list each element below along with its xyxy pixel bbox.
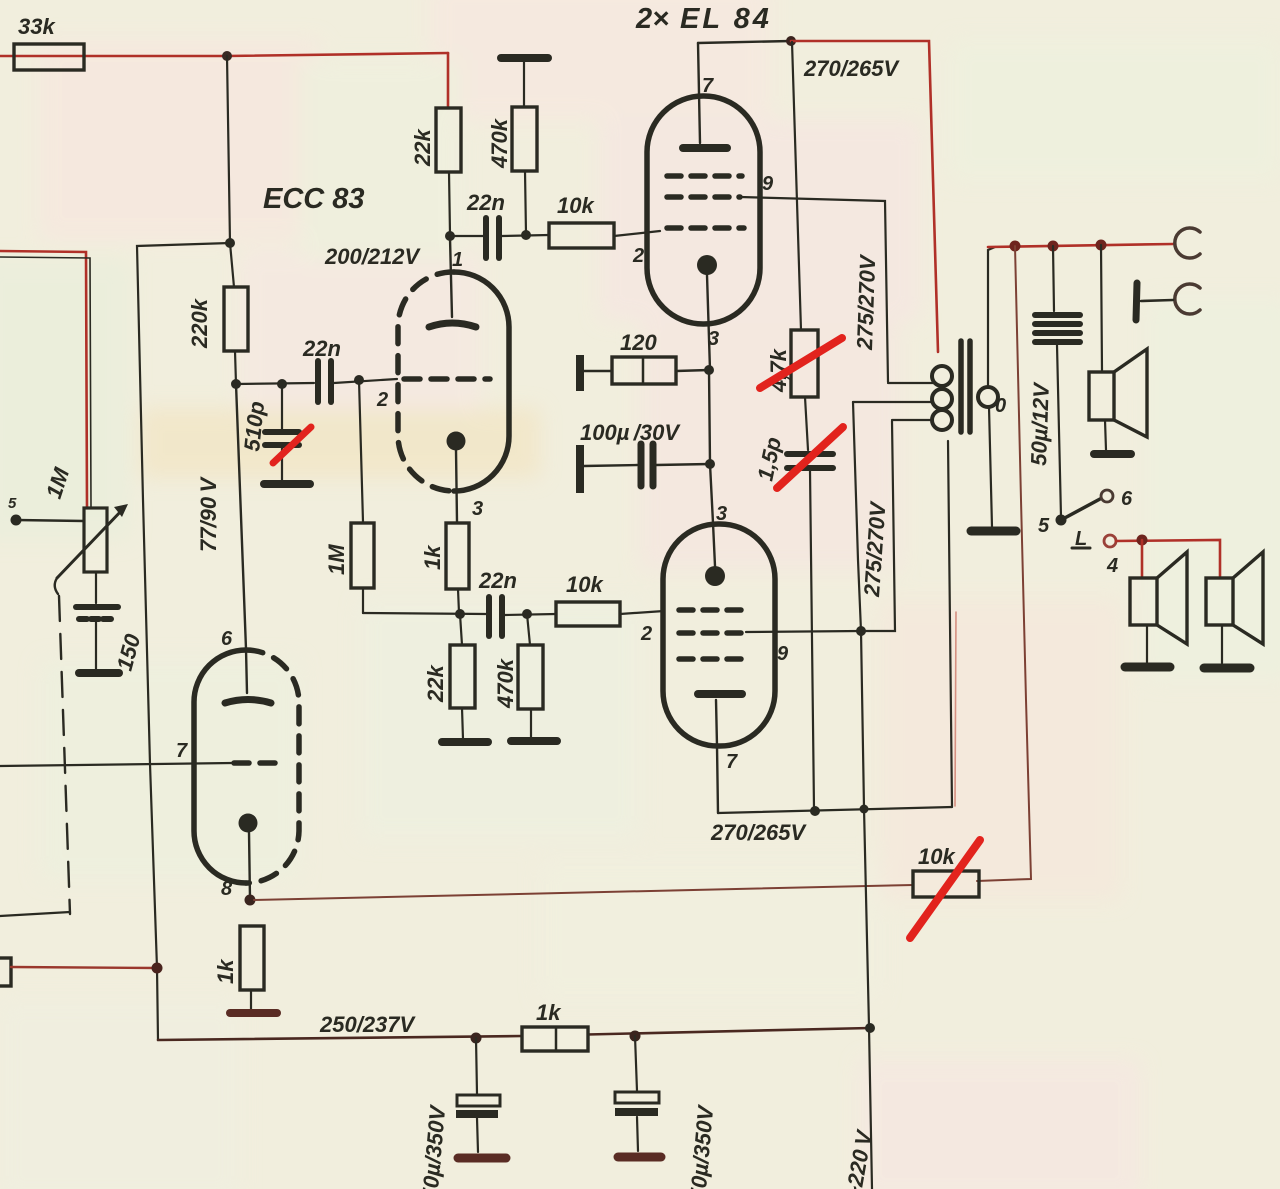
resistor 470k (upper) xyxy=(512,107,537,171)
wire junction to 22n xyxy=(450,235,483,237)
plate bar V1b xyxy=(225,700,271,704)
terminal bar 100u left xyxy=(576,445,584,493)
svg-text:1k: 1k xyxy=(213,958,238,984)
correction slash over 1,5p xyxy=(777,427,843,488)
wire plate lead V1b from 220k node xyxy=(236,384,247,693)
svg-text:8: 8 xyxy=(221,878,233,900)
cathode dot V2a xyxy=(697,255,717,275)
svg-text:270/265V: 270/265V xyxy=(803,56,901,81)
wire plate lead V2b down xyxy=(716,700,718,813)
wire cathode lead V1a xyxy=(456,450,457,522)
ground below secondary xyxy=(971,527,1016,536)
node rail junction right xyxy=(865,1023,875,1033)
ground below 470k xyxy=(511,737,557,745)
node red speaker junction xyxy=(1137,535,1148,546)
svg-text:275/270V: 275/270V xyxy=(852,253,880,351)
ground below 150 xyxy=(79,669,119,677)
svg-text:2×: 2× xyxy=(635,3,669,35)
triode V1b ECC83 envelope solid left xyxy=(194,650,246,883)
svg-text:7: 7 xyxy=(176,740,188,762)
resistor 33k xyxy=(14,44,84,70)
node red rail dot 1 xyxy=(1010,241,1021,252)
potentiometer 1M body xyxy=(84,508,107,572)
svg-text:270/265V: 270/265V xyxy=(710,820,808,845)
ground below C2 dark red xyxy=(618,1153,661,1162)
wire 220k bottom lead xyxy=(235,351,236,384)
grid g2 dashes V2a xyxy=(667,194,740,200)
svg-text:120: 120 xyxy=(620,330,657,355)
node cathode junction 120 xyxy=(704,365,714,375)
plate bar V1a xyxy=(429,323,476,327)
wire 100u to cathode node xyxy=(656,464,710,465)
cathode dot V1b xyxy=(239,814,258,833)
wire 10k to grid V2a xyxy=(614,231,660,236)
node cathode V1b junction xyxy=(245,895,256,906)
wire 50u to switch xyxy=(1057,345,1061,517)
switch lever xyxy=(1061,499,1100,520)
wire speaker1 to ground xyxy=(1105,420,1106,450)
ground below speaker2 xyxy=(1125,663,1170,672)
wire cathode node horizontal xyxy=(363,613,486,614)
wire red output rail xyxy=(988,244,1173,247)
wire cathode lead V2a down xyxy=(707,275,710,370)
wire from junction down to node A xyxy=(227,56,230,243)
svg-text:22n: 22n xyxy=(478,568,517,593)
wire red input to volume pot xyxy=(0,251,87,508)
svg-text:2: 2 xyxy=(376,389,388,411)
wire 1.5p down to plate wire V2b xyxy=(810,470,814,809)
svg-text:10k: 10k xyxy=(566,572,604,597)
wire speaker2 to ground xyxy=(1146,625,1148,663)
svg-text:1: 1 xyxy=(452,249,463,271)
svg-text:4: 4 xyxy=(1106,555,1118,577)
wire 10k to grid V2b xyxy=(620,611,664,614)
wire C2 lead xyxy=(635,1036,637,1091)
svg-text:100µ /30V: 100µ /30V xyxy=(580,420,681,445)
svg-text:9: 9 xyxy=(762,173,774,195)
node g2 junction 275V line xyxy=(856,626,866,636)
node plate junction V1a xyxy=(445,231,455,241)
svg-text:510p: 510p xyxy=(239,400,269,452)
wire g2 V2a to transformer tap xyxy=(740,197,888,382)
transformer T1 primary tap B xyxy=(853,401,933,403)
wire dark input companion line xyxy=(0,257,91,508)
node red rail dot 3 xyxy=(1096,240,1107,251)
ground below 510p xyxy=(264,480,310,488)
grid g1 dashes V2a xyxy=(667,225,744,231)
wire secondary bottom to ground xyxy=(989,407,992,527)
wire snubber drop to 47k xyxy=(792,42,801,330)
wire red drop to 22k R3 xyxy=(447,53,450,108)
speaker LS3 xyxy=(1206,552,1263,644)
wire 150 to ground xyxy=(95,621,97,670)
phones jack circle bottom xyxy=(1175,284,1200,314)
resistor 10k (to V2b grid) xyxy=(556,602,620,626)
wire 470k bottom lead xyxy=(525,171,526,234)
pentode V2b EL84 envelope xyxy=(663,524,775,746)
correction slash over 510p xyxy=(273,427,311,463)
wire grid leak 1M lead xyxy=(359,380,363,522)
grid dashes V1b xyxy=(234,760,286,766)
wire top plate run xyxy=(698,41,791,43)
capacitor 50u/350V no1 xyxy=(457,1095,500,1106)
resistor 1k rail xyxy=(522,1027,588,1051)
resistor 220k xyxy=(224,287,248,351)
wire g2 V2b to junction and tap xyxy=(746,421,895,632)
correction slash over 4,7k xyxy=(760,338,842,388)
svg-text:220k: 220k xyxy=(187,297,212,349)
resistor 1M (grid leak) xyxy=(351,523,374,588)
node junction at 157,968 xyxy=(152,963,163,974)
wire red drop speaker2 xyxy=(1141,540,1144,576)
wire phones lower terminal xyxy=(1141,300,1173,301)
wire red input top-left through 33k xyxy=(0,53,448,56)
capacitor 50u/350V no2 xyxy=(615,1092,659,1103)
pentode V2a EL84 envelope xyxy=(647,96,760,324)
wire 470k to top terminal xyxy=(523,62,525,107)
node cathode junction xyxy=(455,609,465,619)
ground below C1 dark red xyxy=(458,1154,506,1163)
wire C1 lead xyxy=(476,1038,477,1094)
wire 120 to cathode line xyxy=(676,370,709,371)
svg-text:200/212V: 200/212V xyxy=(324,244,422,269)
wire 220k top lead xyxy=(230,243,234,287)
svg-text:77/90 V: 77/90 V xyxy=(196,476,221,552)
capacitor 22n (upper coupling) xyxy=(486,218,499,258)
wire 1k bottom lead xyxy=(458,589,459,613)
wire 22n to grid node xyxy=(334,379,397,383)
node cathode junction 100u xyxy=(705,459,715,469)
switch contact 6 circle xyxy=(1101,490,1113,502)
triode V1b ECC83 envelope dashed right xyxy=(246,650,299,883)
triode V1a ECC83 envelope dashed left xyxy=(398,272,454,491)
node A junction xyxy=(225,238,235,248)
wire AVC corner to left edge xyxy=(0,912,70,916)
svg-text:1k: 1k xyxy=(536,1000,562,1025)
svg-text:250/237V: 250/237V xyxy=(319,1012,417,1037)
wire 50u drop xyxy=(1053,246,1054,311)
transformer T1 secondary winding xyxy=(978,387,998,407)
speaker LS2 xyxy=(1130,552,1187,644)
svg-text:1k: 1k xyxy=(420,544,445,570)
svg-text:470k: 470k xyxy=(493,657,518,709)
triode V1a ECC83 envelope solid right xyxy=(454,272,509,491)
ground below 22k xyxy=(442,738,488,746)
grid g2 dashes V2b xyxy=(679,630,747,636)
svg-text:ECC 83: ECC 83 xyxy=(263,183,365,215)
wire cathode lead V1b xyxy=(249,832,250,899)
ground below speaker1 xyxy=(1094,450,1131,458)
wire 1k to ground xyxy=(250,990,252,1009)
node 470k top junction xyxy=(522,609,532,619)
svg-text:6: 6 xyxy=(1121,488,1133,510)
wire 22k bottom lead xyxy=(449,172,450,234)
wire speaker3 to ground xyxy=(1221,625,1223,663)
wire red to junction xyxy=(11,967,157,968)
terminal bar 120 left xyxy=(576,355,584,391)
svg-text:50µ/12V: 50µ/12V xyxy=(1026,381,1054,467)
resistor stub at left edge xyxy=(0,958,11,986)
plate bar V2b xyxy=(698,690,742,698)
wire 470k top lead xyxy=(527,614,530,645)
node rail junction C2 xyxy=(630,1031,641,1042)
wire down to 510p xyxy=(281,384,283,429)
capacitor 50u/12V xyxy=(1035,315,1080,342)
wire terminal to 120 xyxy=(584,370,612,372)
wire cathode node down to V2b xyxy=(710,464,713,523)
wire plate lead V2a xyxy=(698,43,700,143)
node junction at 33k rail xyxy=(222,51,232,61)
wire secondary top lead xyxy=(988,247,995,387)
svg-text:3: 3 xyxy=(716,503,727,525)
wire 47k to 1.5p xyxy=(805,397,808,450)
resistor 22k (lower) xyxy=(450,645,475,708)
node rail junction C1 xyxy=(471,1033,482,1044)
wire wiper input xyxy=(16,520,84,521)
node input terminal dot xyxy=(11,515,22,526)
svg-text:3: 3 xyxy=(708,328,719,350)
resistor 120 xyxy=(612,357,676,384)
capacitor 150 xyxy=(76,607,118,619)
svg-text:0: 0 xyxy=(995,395,1006,417)
wire red plate to transformer top xyxy=(791,41,938,352)
capacitor 1,5p snubber xyxy=(787,454,833,468)
node snubber junction xyxy=(810,806,820,816)
wire 22k top lead xyxy=(460,614,462,645)
transformer T1 primary tap C xyxy=(892,419,933,421)
grid g1 dashes V2b xyxy=(679,607,749,613)
capacitor 22n (second coupling) xyxy=(489,597,502,636)
wire C2 to ground xyxy=(637,1117,638,1151)
wire transformer bottom lead up xyxy=(948,441,952,807)
wire pot bottom to 150 cap xyxy=(95,572,97,603)
svg-text:5: 5 xyxy=(1038,515,1050,537)
wire C1 to ground xyxy=(477,1118,478,1152)
svg-text:EL 84: EL 84 xyxy=(680,3,772,35)
wire junction to 22n cap xyxy=(236,383,314,384)
wire feedback long line to 10k xyxy=(254,885,913,900)
wire cathode lead V2b xyxy=(713,523,715,566)
capacitor 100u/30V xyxy=(641,444,653,486)
node grid junction V1 xyxy=(354,375,364,385)
node crossing 275V line xyxy=(860,805,869,814)
wire red to bottom speakers xyxy=(1116,540,1220,576)
wire cathode line down xyxy=(709,370,710,464)
wire 22n to 10k xyxy=(502,235,549,236)
svg-text:22n: 22n xyxy=(466,190,505,215)
wire cap to 10k xyxy=(505,614,556,615)
svg-text:22n: 22n xyxy=(302,336,341,361)
resistor 1k cathode V1b xyxy=(240,926,264,990)
svg-text:7: 7 xyxy=(726,751,738,773)
svg-text:2: 2 xyxy=(632,245,644,267)
resistor 10k (to V2a grid) xyxy=(549,223,614,248)
wire speaker1 drop xyxy=(1101,245,1102,371)
svg-text:7: 7 xyxy=(702,75,714,97)
cathode dot V1a xyxy=(447,432,466,451)
wire plate lead V1a xyxy=(450,238,452,317)
wire red ghost beside transformer lead xyxy=(955,612,956,806)
wire 22k to ground xyxy=(462,708,463,739)
wire 275V line center tap long drop xyxy=(853,402,872,1189)
grid g3 dashes V2b xyxy=(679,656,749,662)
svg-text:470k: 470k xyxy=(487,117,512,169)
wire 1M bottom lead xyxy=(362,588,364,613)
grid dashes V1a xyxy=(404,376,490,382)
svg-text:1M: 1M xyxy=(324,544,349,575)
cathode dot V2b xyxy=(705,566,725,586)
svg-text:5: 5 xyxy=(8,495,17,512)
svg-text:10k: 10k xyxy=(557,193,595,218)
resistor 22k (upper) xyxy=(436,108,461,172)
svg-text:6: 6 xyxy=(221,628,233,650)
resistor 4.7k snubber xyxy=(791,330,818,397)
ground below speaker3 xyxy=(1204,664,1250,673)
svg-text:9: 9 xyxy=(777,643,789,665)
phones jack circle top xyxy=(1175,228,1200,258)
plate bar V2a xyxy=(683,144,727,152)
wire 470k to ground xyxy=(530,709,532,738)
node plate rail junction xyxy=(786,36,796,46)
wire wiper to dashed AVC line xyxy=(55,578,58,594)
wire node A left then long drop to bottom rail corner xyxy=(137,243,230,1040)
wire bottom supply rail 250/237V xyxy=(158,1028,870,1040)
svg-text:10k: 10k xyxy=(918,844,956,869)
wire dashed AVC vertical xyxy=(59,596,70,914)
svg-text:33k: 33k xyxy=(18,14,56,39)
resistor 470k (lower) xyxy=(518,645,543,709)
potentiometer wiper arrow xyxy=(57,508,124,578)
svg-text:3: 3 xyxy=(472,498,483,520)
terminal bar above 470k xyxy=(501,54,548,62)
node 470k bottom junction xyxy=(521,230,531,240)
wire feedback takeoff down xyxy=(977,246,1031,881)
wire plate run V2b to transformer xyxy=(718,807,952,813)
svg-text:22k: 22k xyxy=(410,128,435,167)
capacitor 510p xyxy=(265,432,299,445)
svg-text:22k: 22k xyxy=(423,664,448,703)
correction slash over 10k feedback xyxy=(910,840,980,938)
wire grid input V1b xyxy=(0,763,232,766)
speaker LS1 xyxy=(1089,349,1147,437)
transformer T1 primary tap A xyxy=(888,382,933,384)
capacitor 22n (first stage coupling) xyxy=(318,361,331,402)
svg-text:2: 2 xyxy=(640,623,652,645)
resistor 10k feedback xyxy=(913,871,979,897)
terminal 4 circle xyxy=(1104,535,1116,547)
switch pole 5 xyxy=(1056,515,1067,526)
resistor 1k cathode V1a xyxy=(446,523,469,589)
node red rail dot 2 xyxy=(1048,241,1059,252)
node 510p branch junction xyxy=(277,379,287,389)
ground below 1k dark red xyxy=(230,1009,277,1017)
terminal bar phones xyxy=(1136,283,1137,320)
node 220k bottom junction xyxy=(231,379,241,389)
wire 510p to ground xyxy=(281,447,283,481)
transformer T1 primary winding loops xyxy=(932,366,952,430)
transformer T1 core xyxy=(958,341,964,432)
wire terminal to 100u xyxy=(584,465,637,466)
grid g3 dashes V2a xyxy=(667,173,742,179)
